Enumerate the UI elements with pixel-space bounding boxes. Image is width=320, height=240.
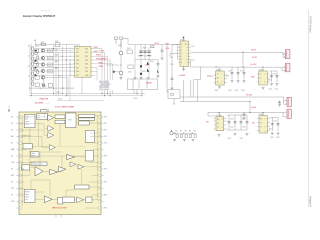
box timer 16bit (31, 152, 40, 158)
svg-text:P15: P15 (104, 156, 107, 158)
svg-text:VFD1: VFD1 (94, 47, 99, 49)
ground below IC602 (182, 67, 185, 71)
svg-text:D-GND: D-GND (179, 75, 186, 77)
svg-text:R612: R612 (57, 92, 61, 94)
svg-text:C635: C635 (241, 90, 245, 92)
IC701 left pin labels (11, 117, 15, 204)
svg-text:H+12V: H+12V (251, 64, 258, 66)
svg-text:R3: R3 (185, 131, 187, 133)
svg-text:P12: P12 (104, 130, 107, 132)
transistor Q602 (119, 41, 123, 78)
svg-text:D4: D4 (28, 75, 30, 77)
wire pin stubs right (95, 142, 99, 144)
junction dots filter row (175, 133, 193, 134)
svg-text:34: 34 (70, 60, 72, 62)
IC601 left pin numbers (70, 48, 72, 77)
ground under Q602 (120, 78, 123, 80)
svg-text:C661: C661 (270, 137, 274, 139)
small box on top border of block (41, 110, 48, 114)
filter row labels (176, 131, 196, 133)
svg-text:D606: D606 (142, 71, 146, 73)
svg-text:32: 32 (70, 52, 72, 54)
svg-text:P16: P16 (104, 169, 107, 171)
svg-text:H+24V: H+24V (246, 94, 253, 96)
capacitor C610 trio (139, 51, 150, 56)
comparator triangles column (48, 115, 56, 150)
vertical feeders (53, 44, 55, 93)
svg-text:Chapter 8: Chapter 8 (308, 196, 311, 207)
svg-text:C621: C621 (191, 60, 195, 62)
svg-text:R633: R633 (215, 90, 219, 92)
svg-text:C611: C611 (143, 56, 147, 58)
value text labels input section (28, 41, 62, 94)
svg-text:D605: D605 (150, 61, 154, 63)
IC606 (216, 115, 224, 131)
IC601 internal pin names (76, 48, 90, 77)
svg-text:RE: RE (260, 118, 262, 120)
svg-text:VFD2: VFD2 (94, 51, 99, 53)
wire vertical link (242, 52, 244, 67)
capacitor on CN604 rail (243, 112, 246, 116)
svg-text:K5: K5 (11, 169, 13, 171)
svg-text:C641: C641 (269, 88, 273, 90)
red power arrow above IC602 (183, 37, 185, 40)
caps right of IC605 (270, 71, 279, 82)
svg-text:R661: R661 (269, 128, 273, 130)
svg-text:Q603: Q603 (128, 71, 132, 73)
IC602 regulator (180, 37, 189, 67)
svg-text:C634: C634 (235, 90, 239, 92)
relay box (167, 45, 180, 105)
svg-text:S601: S601 (58, 99, 62, 101)
caps right of IC606 (227, 115, 249, 130)
right page rule (307, 10, 309, 207)
small boxes right of comparators (55, 115, 65, 124)
svg-text:RST: RST (11, 175, 14, 177)
svg-text:78: 78 (217, 74, 219, 76)
vertical drops to net label cluster (101, 49, 103, 81)
bottom op-amp (44, 196, 52, 203)
svg-text:P10: P10 (104, 117, 107, 119)
svg-text:C642: C642 (275, 88, 279, 90)
svg-text:33: 33 (70, 56, 72, 58)
IC701 inner pin boxes left (19, 116, 21, 209)
connector CN602 (284, 63, 290, 72)
grounds under IC603 caps (218, 81, 246, 89)
svg-text:D3: D3 (28, 65, 30, 67)
IC601 pins (73, 49, 93, 76)
svg-text:R608: R608 (48, 71, 52, 73)
IC602 value texts (170, 46, 195, 66)
IC601 body (75, 46, 92, 77)
capacitor pair row6 (42, 83, 46, 87)
svg-text:C622: C622 (170, 64, 174, 66)
svg-text:VFD700-07 INV: VFD700-07 INV (52, 208, 67, 210)
svg-text:P02: P02 (76, 56, 79, 58)
svg-text:C631: C631 (240, 70, 244, 72)
svg-text:R620: R620 (143, 48, 147, 50)
resistors under filter row (176, 135, 196, 138)
svg-text:P01: P01 (76, 52, 79, 54)
svg-text:P05: P05 (76, 67, 79, 69)
svg-text:H-VG: H-VG (252, 107, 257, 109)
cap value texts under IC603 group (215, 90, 245, 92)
svg-text:R615 C609: R615 C609 (66, 88, 74, 90)
bottom rails (30, 93, 145, 95)
mid-left small box (23, 144, 32, 149)
svg-text:P04: P04 (76, 64, 79, 66)
wire rail to CN604 (208, 111, 285, 113)
wire rail H-5V (191, 51, 284, 53)
svg-text:31: 31 (70, 48, 72, 50)
svg-text:Q602: Q602 (127, 48, 131, 50)
svg-text:+15V: +15V (154, 43, 159, 45)
svg-text:K1: K1 (11, 123, 13, 125)
IC603 regulator (216, 67, 225, 85)
svg-text:N: N (181, 62, 182, 64)
svg-text:D1: D1 (28, 45, 30, 47)
wire rail 2 (180, 101, 250, 103)
reset cluster (114, 37, 128, 47)
wire rail H-12V (191, 66, 285, 68)
small element column 2 (35, 53, 38, 71)
svg-text:VFD6: VFD6 (99, 66, 104, 68)
svg-text:G1: G1 (217, 123, 219, 125)
op-amp A3 (67, 154, 75, 159)
svg-text:K6: K6 (11, 182, 13, 184)
capacitor value texts (138, 48, 154, 73)
IC607 (259, 114, 268, 133)
wire rail y88 (29, 80, 66, 88)
value boxes beside transistors (48, 49, 53, 73)
caps right of IC603 hanging from H-12V rail (231, 67, 246, 80)
svg-text:VFD700 Service: VFD700 Service (308, 16, 311, 33)
svg-text:C633: C633 (228, 90, 232, 92)
svg-text:P41: P41 (85, 52, 88, 54)
caps right of IC607 (270, 118, 279, 132)
svg-text:R2: R2 (180, 131, 182, 133)
svg-text:P11: P11 (104, 123, 107, 125)
svg-text:C652: C652 (230, 126, 234, 128)
resistor R619 on rail (151, 46, 154, 48)
svg-text:4V: 4V (260, 126, 262, 128)
op-amp A2b (59, 167, 67, 173)
svg-text:P14: P14 (104, 143, 107, 145)
zener D608 (157, 70, 159, 73)
svg-text:C640: C640 (273, 73, 277, 75)
bottom row boxes (63, 197, 75, 203)
drops into IC606/IC607 (219, 112, 221, 116)
svg-text:R618: R618 (118, 45, 122, 47)
svg-text:P21: P21 (104, 208, 107, 210)
svg-text:R1: R1 (176, 131, 178, 133)
svg-text:K2: K2 (11, 130, 13, 132)
capacitor on IC602 left bus (171, 78, 174, 79)
node +B (34, 40, 37, 45)
svg-text:C660: C660 (273, 120, 277, 122)
ground IC602 left bus (171, 88, 174, 90)
IC701 right pin labels (104, 117, 107, 210)
svg-text:36: 36 (70, 67, 72, 69)
svg-text:P06: P06 (76, 71, 79, 73)
svg-text:input: input (25, 123, 29, 126)
wire top rail (36, 43, 75, 45)
IC701 inner pin boxes right (99, 116, 101, 209)
svg-text:R641: R641 (268, 80, 272, 82)
svg-text:C603: C603 (55, 61, 59, 63)
svg-text:35: 35 (70, 63, 72, 65)
svg-text:-- -- --: -- -- -- (45, 102, 50, 104)
svg-text:9: 9 (260, 82, 261, 84)
svg-text:R607: R607 (48, 64, 52, 66)
wire rail H-24V (180, 96, 284, 98)
svg-text:R5: R5 (194, 131, 196, 133)
svg-text:P13: P13 (104, 136, 107, 138)
svg-text:C612: C612 (148, 56, 152, 58)
cap value texts under IC607 group (270, 137, 280, 139)
transistor Q605 near filter row (170, 130, 175, 135)
svg-text:C610: C610 (138, 56, 142, 58)
svg-text:Inverter / Inverter VFD700-07: Inverter / Inverter VFD700-07 (23, 15, 56, 18)
bottom component row input section (35, 76, 52, 87)
ground under chain (157, 58, 164, 78)
junction dots mid rails (219, 101, 264, 113)
svg-text:P43: P43 (85, 60, 88, 62)
box timing gen (22, 165, 30, 170)
svg-text:R630: R630 (226, 75, 230, 77)
svg-text:P44: P44 (85, 64, 88, 66)
svg-text:R602: R602 (41, 42, 45, 44)
junction dots rails (216, 52, 264, 68)
svg-text:R606: R606 (48, 58, 52, 60)
grounds under IC605 (262, 84, 279, 90)
svg-text:D2: D2 (28, 55, 30, 57)
svg-text:P17: P17 (104, 182, 107, 184)
left page number 8 (8, 107, 11, 113)
filter row wire (175, 132, 196, 134)
main rails from IC602 to connectors (191, 52, 285, 70)
svg-text:P00: P00 (76, 48, 79, 50)
IC606 pins (214, 119, 227, 129)
diode/cap chain right of rail (157, 45, 164, 77)
svg-text:RESET: RESET (101, 59, 108, 61)
bottom pins of block (56, 215, 61, 218)
transistor Q601 (41, 49, 44, 79)
svg-text:IC701 TMP87CM38N: IC701 TMP87CM38N (55, 106, 75, 108)
svg-text:VFD700-07: VFD700-07 (41, 10, 50, 12)
grounds under IC606 caps (218, 134, 249, 137)
svg-text:X601: X601 (55, 41, 59, 43)
svg-text:G2: G2 (260, 122, 262, 124)
IC701 left pins (17, 117, 20, 208)
bottom-left box PWM (24, 189, 35, 202)
left feeder line IC602 (170, 45, 178, 89)
svg-text:2V: 2V (217, 127, 219, 129)
svg-text:P45: P45 (85, 67, 88, 69)
svg-text:AC-REM: AC-REM (35, 101, 43, 104)
IC607 pins (257, 119, 270, 131)
cap value texts under IC606 group (228, 138, 244, 140)
feeders down from top section (180, 67, 285, 117)
svg-text:H+5V: H+5V (251, 49, 257, 51)
svg-text:C653: C653 (242, 126, 246, 128)
IC701 right pins (101, 117, 104, 208)
crystal X601 box (55, 43, 60, 47)
top-right stacked boxes (79, 114, 95, 125)
svg-text:VDD: VDD (251, 76, 256, 78)
svg-text:H+9V: H+9V (252, 57, 258, 59)
cap value texts under IC605 group (269, 88, 279, 90)
svg-text:C651: C651 (242, 118, 246, 120)
wire inner right bus (96, 116, 98, 200)
diode D601 (140, 62, 149, 75)
svg-text:K7: K7 (11, 195, 13, 197)
svg-text:RE: RE (217, 119, 219, 121)
op-amp A2 (50, 169, 58, 174)
mid-right box (85, 130, 94, 142)
svg-text:VFD3: VFD3 (96, 55, 101, 57)
svg-text:TST: TST (11, 188, 14, 190)
svg-text:L0: L0 (260, 78, 262, 80)
svg-text:P03: P03 (76, 60, 79, 62)
ground under rail cap (243, 118, 246, 120)
svg-text:DRIVE: DRIVE (146, 83, 153, 85)
IC605 regulator (259, 67, 268, 85)
svg-text:+: + (152, 49, 153, 51)
filter under CN603 (278, 101, 281, 107)
cap value texts IC605 (268, 73, 276, 81)
svg-text:C662: C662 (276, 137, 280, 139)
box ROM/RAM (24, 114, 35, 127)
grounds under IC607 (271, 133, 280, 135)
svg-text:P46: P46 (85, 71, 88, 73)
bottom small box (58, 197, 63, 204)
resistor column 2 (37, 49, 39, 52)
svg-text:TMP87CM: TMP87CM (22, 135, 31, 137)
svg-text:C630: C630 (228, 70, 232, 72)
svg-text:REMOTE: REMOTE (40, 99, 49, 101)
internal wiring of block (19, 113, 101, 208)
connector CN603 (286, 97, 292, 106)
svg-text:M0: M0 (217, 78, 219, 80)
svg-text:P20: P20 (104, 195, 107, 197)
wire left bus (29, 44, 31, 93)
connector CN601 (284, 50, 290, 59)
IC605 pins (257, 74, 270, 82)
transformer T601 box (128, 79, 158, 96)
box interrupt ctrl (37, 114, 48, 120)
wire pin stubs left (22, 129, 25, 131)
net label cluster under IC601 (100, 81, 111, 91)
resistor R601 on top rail (41, 43, 46, 45)
svg-text:C655: C655 (240, 138, 244, 140)
svg-text:C650: C650 (230, 118, 234, 120)
grounds under filter row (173, 139, 195, 141)
svg-text:R605: R605 (48, 50, 52, 52)
svg-text:P07: P07 (76, 75, 79, 77)
wire ticks under net cluster (102, 90, 113, 95)
IC701 block body (19, 112, 101, 215)
svg-text:VFD5: VFD5 (99, 62, 104, 64)
wires matrix from input column to IC601 (29, 44, 145, 100)
svg-text:OUT: OUT (185, 44, 188, 46)
svg-text:37: 37 (70, 71, 72, 73)
small triangles lower right (70, 162, 76, 167)
diode left of Q603 (113, 70, 116, 73)
wire internal verticals (38, 121, 40, 146)
connector CN604 (286, 109, 292, 118)
svg-text:P-ON: P-ON (99, 51, 104, 53)
CPU box (66, 113, 77, 128)
bottom wide box (75, 185, 89, 189)
svg-text:K0: K0 (11, 117, 13, 119)
IC603 pins (214, 75, 228, 83)
svg-text:K3: K3 (11, 143, 13, 145)
value boxes Q602 (127, 50, 133, 69)
svg-text:C620: C620 (191, 46, 195, 48)
top pins of block (45, 109, 49, 113)
junction dots input matrix (31, 48, 67, 96)
cap value texts IC606 (230, 118, 246, 128)
cap value texts IC603 (226, 70, 244, 77)
IC601 right side wires and red net labels (82, 49, 113, 94)
op-amp A1 (35, 167, 43, 176)
svg-text:R601: R601 (36, 46, 40, 48)
+15V rail (128, 38, 180, 77)
cap value texts IC607 (269, 120, 277, 130)
grounds under rail caps (134, 78, 150, 80)
svg-text:R4: R4 (189, 131, 191, 133)
svg-text:KEY5 GRID6: KEY5 GRID6 (100, 89, 110, 91)
diode D601-D604 column marks (35, 49, 37, 76)
svg-text:P42: P42 (85, 56, 88, 58)
svg-text:K4: K4 (11, 156, 13, 158)
left resistor column (32, 47, 39, 85)
IC602 pins (178, 45, 191, 63)
svg-text:38: 38 (70, 75, 72, 77)
svg-text:C654: C654 (228, 138, 232, 140)
svg-text:5F: 5F (217, 82, 219, 84)
svg-text:P40: P40 (85, 48, 88, 50)
box watchdog (31, 162, 47, 166)
svg-text:IN: IN (181, 44, 183, 46)
svg-text:78: 78 (260, 74, 262, 76)
wire into IC603 left (209, 75, 214, 77)
wire inner left bus (22, 118, 24, 206)
box right mid2 (85, 150, 93, 161)
